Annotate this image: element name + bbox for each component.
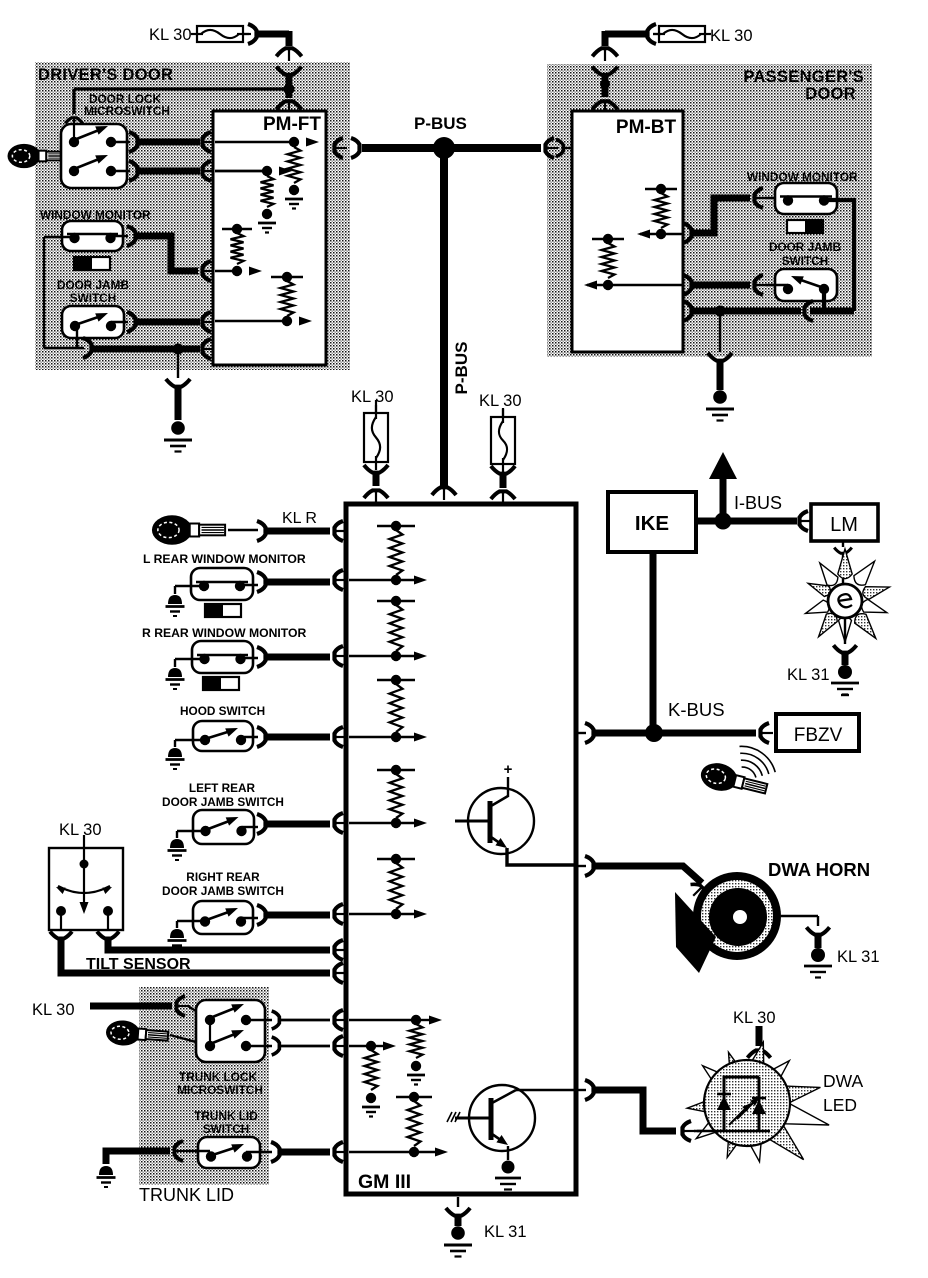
node driver ground branch (173, 344, 184, 355)
svg-text:PM-FT: PM-FT (263, 114, 321, 135)
svg-text:LEFT REAR: LEFT REAR (189, 781, 256, 795)
ground left rear door jamb (177, 830, 206, 832)
door lock microswitch (driver) (61, 124, 127, 188)
wire window monitor left rail (44, 236, 77, 238)
wire IKE to LM (696, 518, 797, 525)
node I-BUS junction (715, 513, 732, 530)
op module PM-BT box (572, 111, 683, 352)
wire R rear window monitor to GM III (241, 657, 258, 659)
svg-text:FBZV: FBZV (794, 725, 843, 746)
connector pair into passenger door (592, 48, 617, 56)
trunk lid switch (198, 1137, 260, 1168)
GM III row line 2 (349, 655, 396, 657)
svg-text:DOOR JAMB: DOOR JAMB (57, 278, 129, 292)
svg-text:TILT SENSOR: TILT SENSOR (86, 956, 191, 973)
wire Q1 emitter out (507, 848, 575, 865)
fuse KL30 GM III right (502, 408, 504, 417)
key icon driver door (8, 144, 68, 168)
svg-text:DOOR: DOOR (805, 85, 856, 103)
wire L rear window monitor to GM III (240, 584, 258, 586)
control module GM III box (346, 504, 576, 1194)
svg-text:KL 30: KL 30 (710, 27, 753, 45)
connector at LM (800, 511, 809, 531)
svg-text:DOOR JAMB: DOOR JAMB (769, 240, 841, 254)
wire KL 30 to trunk lock (90, 1003, 172, 1010)
right rear door jamb switch (193, 901, 253, 934)
wire hood switch to GM III (241, 736, 258, 738)
trunk shaded area (139, 987, 269, 1185)
svg-text:KL 30: KL 30 (149, 26, 192, 44)
svg-text:KL 30: KL 30 (351, 388, 394, 406)
DWA LED with burst (746, 1042, 764, 1078)
wire microswitch row1 to PM-FT (111, 141, 130, 143)
wire trunk lock row2 to GM III (246, 1045, 272, 1047)
node passenger ground branch (715, 306, 726, 317)
hood switch (193, 721, 253, 751)
svg-text:R REAR WINDOW MONITOR: R REAR WINDOW MONITOR (142, 626, 306, 640)
trunk lock microswitch (196, 1000, 265, 1062)
GM III trunk row1 resistor (349, 1019, 416, 1021)
wire horn to ground (781, 915, 818, 917)
svg-text:TRUNK LID: TRUNK LID (194, 1109, 258, 1123)
passenger right rail (824, 200, 854, 311)
GM III left connector at 914 (335, 904, 344, 924)
svg-text:KL 30: KL 30 (32, 1001, 75, 1019)
L rear window monitor (191, 568, 253, 600)
interior light bulb with burst (842, 541, 844, 547)
tilt sensor connectors (50, 932, 72, 939)
ground R rear window monitor (175, 658, 204, 660)
P-BUS to PM-BT connector (546, 138, 555, 158)
svg-text:KL 30: KL 30 (59, 821, 102, 839)
window monitor (passenger) (775, 183, 837, 214)
node passenger supply (600, 79, 610, 89)
svg-text:MICROSWITCH: MICROSWITCH (177, 1083, 263, 1097)
node P-BUS junction (433, 137, 455, 159)
ground bulb KL 31 (833, 645, 856, 652)
wire tilt sensor upper to GM III (108, 938, 330, 950)
indicator R rear window (203, 677, 239, 690)
GM III left connector at 1152 (335, 1142, 344, 1162)
horn trumpet (675, 892, 716, 973)
module IKE box (608, 492, 696, 552)
svg-text:TRUNK LID: TRUNK LID (139, 1185, 234, 1205)
GM III resistor ladder R1 (377, 525, 415, 527)
DWA horn (693, 872, 781, 960)
door jamb switch (passenger) (775, 269, 837, 301)
PM-FT row4 line (door jamb) (215, 320, 287, 322)
GM III resistor ladder R3 (377, 679, 415, 681)
wire KL R to GM III (228, 529, 258, 531)
ground right rear door jamb (177, 920, 205, 922)
wire tilt sensor lower to GM III (61, 938, 330, 973)
ground driver door (166, 379, 190, 387)
GM III resistor ladder R2 (377, 600, 415, 602)
wire trunk lid switch to GM III (246, 1151, 272, 1153)
PM-BT bottom row to rail (683, 301, 692, 321)
PM-BT row1 line (656, 229, 666, 239)
wire node to PM-FT top (286, 89, 293, 98)
connector pair fuse1 to GM III (364, 465, 388, 473)
window monitor (driver) (62, 221, 123, 251)
svg-text:+: + (504, 761, 513, 778)
GM III trunk lid row line (349, 1151, 414, 1153)
GM III row line 4 (349, 822, 396, 824)
PM-BT out row1 to window monitor (683, 223, 692, 243)
svg-text:KL 31: KL 31 (787, 666, 830, 684)
K-BUS output from GM III (576, 732, 586, 734)
PM-FT row1 line and resistor R1 (215, 141, 294, 143)
tilt sensor box (49, 848, 123, 930)
svg-text:RIGHT REAR: RIGHT REAR (186, 870, 260, 884)
svg-text:DOOR JAMB SWITCH: DOOR JAMB SWITCH (162, 795, 284, 809)
PM-BT resistor R1 (645, 188, 677, 190)
svg-text:DWA: DWA (823, 1071, 864, 1091)
svg-text:GM III: GM III (358, 1171, 411, 1193)
PM-BT resistor R2 (592, 238, 624, 240)
wire node to PM-BT top (602, 84, 609, 97)
GM III left connector at 580 (335, 570, 344, 590)
wire ground to trunk lid switch (106, 1151, 170, 1164)
svg-text:LM: LM (830, 514, 858, 536)
svg-text:TRUNK LOCK: TRUNK LOCK (179, 1070, 257, 1084)
GM III row line 3 (349, 736, 396, 738)
wire Q2 collector out (516, 1089, 575, 1091)
K-BUS vertical from IKE (650, 552, 657, 733)
passenger door shaded area (547, 64, 872, 357)
R rear window monitor (192, 641, 253, 673)
indicator (driver window) (74, 257, 110, 270)
svg-text:HOOD SWITCH: HOOD SWITCH (180, 704, 265, 718)
GM III row line 5 (349, 913, 396, 915)
svg-text:SWITCH: SWITCH (70, 291, 117, 305)
wire right rear door jamb to GM III (241, 917, 258, 919)
GM III left connector at 531 (335, 521, 344, 541)
wire door jamb bottom row (76, 322, 78, 348)
ground horn KL 31 (806, 927, 829, 934)
node K-BUS junction (645, 724, 663, 742)
indicator L rear window (205, 604, 241, 617)
module FBZV box (776, 714, 859, 751)
I-BUS arrow (720, 477, 727, 521)
node driver door supply (284, 84, 295, 95)
connector Q1 out to DWA horn (576, 865, 586, 867)
svg-text:KL 30: KL 30 (479, 392, 522, 410)
GM III row line 1 (349, 579, 396, 581)
PM-FT row2 line and resistor R2 (215, 170, 267, 173)
svg-text:DWA HORN: DWA HORN (768, 859, 870, 880)
GM III resistor ladder R5 (377, 858, 415, 860)
remote key signal waves (742, 767, 756, 777)
indicator (passenger window) (787, 220, 823, 233)
ground hood switch (175, 739, 205, 741)
GM III left connector at 950 (335, 940, 344, 960)
svg-text:KL 30: KL 30 (733, 1009, 776, 1027)
wire KL 30 into LED (756, 1026, 763, 1046)
GM III trunk lid resistor (396, 1096, 432, 1098)
svg-text:DRIVER'S DOOR: DRIVER'S DOOR (38, 66, 173, 84)
fuse KL30 passenger (659, 26, 705, 42)
PM-BT out row2 to door jamb switch (683, 275, 692, 295)
PM-BT row2 line (603, 280, 613, 290)
label P-BUS vertical (452, 342, 471, 395)
wire door jamb switch to PM-FT (111, 321, 128, 323)
connector at FBZV (761, 723, 770, 743)
svg-text:KL R: KL R (282, 510, 317, 527)
svg-text:I-BUS: I-BUS (734, 493, 782, 513)
LED diodes inside (724, 1077, 759, 1131)
svg-text:KL 31: KL 31 (837, 948, 880, 966)
PM-FT resistor R4 (271, 276, 303, 278)
wire microswitch row2 to PM-FT (111, 170, 130, 172)
op module PM-FT box (213, 111, 326, 365)
PM-FT P-BUS output (335, 138, 344, 158)
svg-text:L REAR WINDOW MONITOR: L REAR WINDOW MONITOR (143, 552, 306, 566)
svg-text:DOOR JAMB SWITCH: DOOR JAMB SWITCH (162, 884, 284, 898)
connector Q2 out to DWA LED (576, 1089, 586, 1091)
module LM box (811, 504, 878, 541)
fuse KL30 GM III left (375, 400, 377, 413)
ground passenger door (708, 353, 732, 361)
wire trunk lock row1 to GM III (246, 1019, 272, 1021)
P-BUS entry connector to GM III (432, 487, 456, 495)
small dash above FBZV (841, 694, 849, 696)
P-BUS vertical wire (440, 148, 448, 486)
GM III left connector at 656 (335, 646, 344, 666)
GM III left connector at 1020 (335, 1010, 344, 1030)
GM III left connector at 823 (335, 813, 344, 833)
driver door shaded area (35, 62, 350, 370)
wire fuse to passenger drop (653, 33, 661, 35)
P-BUS horizontal wire (362, 144, 541, 152)
svg-text:SWITCH: SWITCH (782, 254, 829, 268)
ground Q2 emitter (507, 1146, 509, 1160)
wire left rear door jamb to GM III (242, 826, 258, 828)
GM III left connector at 973 (335, 963, 344, 983)
connector pair down into driver door (276, 48, 301, 56)
door jamb switch (driver) (62, 306, 124, 338)
svg-text:PASSENGER'S: PASSENGER'S (743, 68, 864, 86)
svg-text:P-BUS: P-BUS (452, 342, 471, 395)
PM-FT row3 line (window monitor) (215, 270, 237, 272)
connector pair fuse2 to GM III (491, 466, 515, 474)
svg-text:MICROSWITCH: MICROSWITCH (84, 104, 170, 118)
svg-text:KL 31: KL 31 (484, 1223, 527, 1241)
svg-text:PM-BT: PM-BT (616, 117, 677, 138)
wire window monitor to PM-FT (107, 235, 128, 237)
ground GM III bottom KL 31 (457, 1197, 459, 1207)
left rear door jamb switch (193, 810, 254, 844)
wire across to door lock microswitch (74, 87, 289, 90)
wire fuse to driver door drop (243, 33, 251, 35)
svg-text:K-BUS: K-BUS (668, 699, 725, 720)
remote key icon with waves (698, 759, 770, 801)
GM III resistor ladder R4 (377, 769, 415, 771)
PM-FT resistor R3 (222, 228, 252, 230)
key icon trunk (105, 1019, 169, 1048)
ground L rear window monitor (175, 585, 203, 587)
GM III left connector at 737 (335, 727, 344, 747)
ground trunk lid (99, 1166, 113, 1175)
svg-text:LED: LED (823, 1095, 857, 1115)
GM III trunk row2 resistor (349, 1045, 371, 1047)
svg-text:IKE: IKE (635, 512, 669, 535)
svg-text:SWITCH: SWITCH (203, 1122, 250, 1136)
transistor Q2 (469, 1085, 535, 1151)
svg-text:P-BUS: P-BUS (414, 114, 467, 133)
key icon KL R (152, 515, 225, 545)
fuse KL30 driver (197, 26, 243, 42)
GM III left connector at 1046 (335, 1036, 344, 1056)
